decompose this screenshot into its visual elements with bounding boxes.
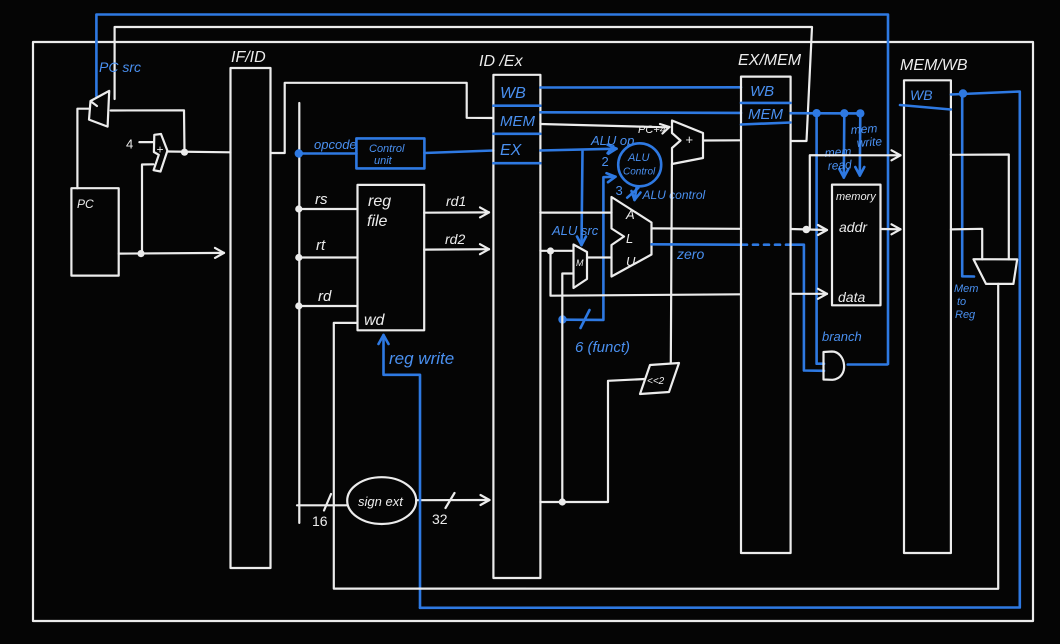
svg-text:write: write [856,134,883,150]
svg-text:PC+4: PC+4 [638,124,666,136]
svg-text:unit: unit [374,155,393,167]
svg-text:memory: memory [836,191,877,203]
svg-text:reg: reg [368,193,391,210]
svg-text:Reg: Reg [955,309,976,321]
svg-text:+: + [686,132,694,147]
svg-text:data: data [838,289,865,305]
svg-text:L: L [626,231,633,246]
svg-text:A: A [625,207,635,222]
svg-text:Control: Control [623,167,656,178]
svg-text:zero: zero [676,246,704,262]
svg-text:ALU: ALU [627,152,649,164]
svg-text:M: M [576,258,584,268]
svg-text:rd2: rd2 [445,231,465,247]
svg-text:wd: wd [364,312,386,329]
svg-text:IF/ID: IF/ID [231,49,266,66]
svg-text:file: file [367,213,388,230]
svg-text:read: read [827,157,852,173]
svg-text:16: 16 [312,513,328,529]
svg-text:to: to [957,296,966,308]
svg-text:U: U [626,254,636,269]
svg-text:reg write: reg write [389,349,454,368]
svg-text:EX: EX [500,142,523,159]
svg-text:Mem: Mem [954,283,978,295]
svg-text:addr: addr [839,219,868,235]
svg-text:ALU control: ALU control [642,188,706,202]
svg-text:MEM: MEM [500,113,536,130]
svg-text:ALU src: ALU src [551,223,599,238]
svg-text:2: 2 [602,154,609,169]
svg-text:rd1: rd1 [446,193,466,209]
svg-text:rs: rs [315,191,328,208]
svg-text:WB: WB [500,85,526,102]
svg-text:PC src: PC src [99,59,141,75]
svg-text:WB: WB [910,87,933,103]
svg-text:branch: branch [822,329,862,344]
svg-text:rt: rt [316,237,326,254]
svg-text:WB: WB [750,83,774,100]
svg-text:4: 4 [126,137,133,152]
svg-text:EX/MEM: EX/MEM [738,52,802,69]
svg-text:opcode: opcode [314,137,357,152]
svg-text:3: 3 [616,183,623,198]
svg-text:MEM/WB: MEM/WB [900,57,968,74]
svg-text:PC: PC [77,197,94,211]
svg-text:sign ext: sign ext [358,494,404,509]
svg-text:Control: Control [369,143,405,155]
svg-text:32: 32 [432,511,448,527]
svg-text:rd: rd [318,288,332,305]
svg-text:ID /Ex: ID /Ex [479,53,524,70]
svg-text:6 (funct): 6 (funct) [575,339,630,356]
svg-text:<<2: <<2 [647,376,665,387]
svg-text:+: + [157,143,164,157]
svg-text:MEM: MEM [748,106,784,123]
